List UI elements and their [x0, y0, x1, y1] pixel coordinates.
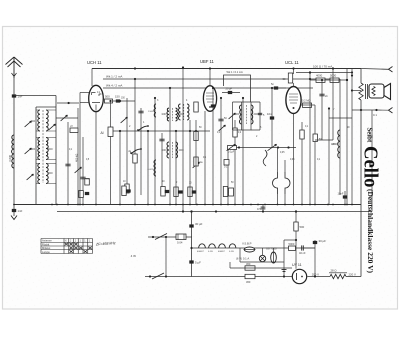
wire switch link	[165, 237, 167, 277]
svg-text:0.1µF: 0.1µF	[228, 151, 235, 154]
antenna	[6, 57, 23, 78]
trimmer left mid	[61, 115, 68, 121]
wire v310	[309, 73, 311, 205]
wire v232	[232, 102, 234, 130]
capacitor 20pF	[228, 91, 232, 94]
wire v352	[351, 69, 353, 205]
wire v78	[77, 108, 79, 205]
svg-text:10n: 10n	[267, 112, 272, 116]
svg-text:30 µF: 30 µF	[319, 239, 327, 243]
resistor 360 upper	[245, 266, 255, 270]
cap C-v68	[65, 163, 70, 165]
wire v110b	[110, 137, 112, 205]
svg-text:0.2 MΩ: 0.2 MΩ	[302, 99, 310, 103]
wire v183 long	[182, 68, 184, 212]
wire v302	[301, 122, 303, 205]
wire v235	[234, 120, 236, 205]
resistor 0.1 box	[224, 160, 229, 166]
resistor 500 psu	[294, 222, 298, 231]
tube UCH11	[89, 85, 104, 111]
wire v361 top	[360, 69, 362, 84]
junction dots bus2	[182, 210, 184, 212]
svg-text:100 Ω / 70 mA: 100 Ω / 70 mA	[313, 65, 332, 69]
cap v141	[138, 110, 143, 112]
svg-text:(6 V) 0.1 A: (6 V) 0.1 A	[236, 257, 249, 261]
trimmer IF2	[229, 113, 236, 119]
wire UCH top pin	[91, 69, 93, 87]
coil antenna	[12, 135, 14, 168]
junction dots top	[134, 67, 136, 69]
wire v340	[339, 79, 341, 195]
wire spk return	[329, 117, 352, 119]
trimmer C-v78	[75, 167, 82, 173]
padder cap	[80, 176, 85, 178]
wire UCH g2	[80, 102, 89, 104]
resistor box v302	[300, 130, 304, 139]
svg-text:220 V: 220 V	[349, 272, 356, 276]
transformer core bars	[365, 84, 367, 99]
svg-text:U8 7000: U8 7000	[266, 247, 277, 251]
wire secondary bus	[57, 211, 372, 213]
fuse VSBP	[244, 247, 254, 252]
svg-text:1nF: 1nF	[18, 209, 23, 213]
trimmer ubf	[219, 125, 226, 131]
switch hook 2	[131, 149, 141, 154]
svg-text:150: 150	[115, 95, 120, 99]
capacitor mains	[176, 234, 186, 240]
resistor 5000	[330, 78, 339, 82]
wire v322	[321, 80, 323, 140]
tube UY11	[292, 269, 306, 283]
wire ucl anode	[301, 104, 315, 106]
IF transformer 1 upper	[167, 108, 169, 121]
wire wk1 loop	[224, 75, 251, 102]
junction pot	[238, 146, 240, 148]
wire h140	[315, 139, 333, 141]
svg-text:4008 P: 4008 P	[197, 251, 204, 253]
wire right h72	[296, 72, 352, 74]
grid hook	[263, 150, 267, 166]
wire v328	[328, 109, 330, 205]
wire v190	[189, 120, 191, 205]
svg-text:500: 500	[300, 225, 305, 229]
svg-text:UBF 11: UBF 11	[200, 59, 215, 64]
resistor box v127	[125, 184, 129, 193]
svg-text:20 pF: 20 pF	[226, 87, 233, 91]
svg-text:400 kΩ: 400 kΩ	[75, 154, 79, 162]
wire left block top	[14, 95, 56, 97]
resistor 5000 psu	[289, 246, 296, 250]
field coil zigzag	[359, 83, 363, 100]
wire v241	[241, 102, 243, 130]
svg-text:Wk 4 / 2 mA: Wk 4 / 2 mA	[106, 84, 122, 88]
wire v333	[332, 69, 334, 141]
capacitor antenna series	[12, 94, 16, 97]
coil L1 secondary	[46, 110, 48, 131]
wire top rail	[92, 68, 361, 70]
wire v284 top link	[284, 239, 296, 241]
svg-text:0.5: 0.5	[257, 207, 261, 211]
wire v162	[161, 133, 163, 196]
svg-text:1000: 1000	[161, 114, 167, 116]
wire v127	[126, 98, 128, 193]
wire to right rail	[346, 276, 361, 278]
wire v135	[134, 79, 136, 205]
IF transformer 1 lower	[167, 142, 169, 158]
resistor 500 anode	[105, 99, 113, 103]
wire UBF bottom	[204, 111, 206, 205]
coil L2 secondary	[46, 138, 48, 160]
svg-text:1000: 1000	[179, 150, 185, 152]
cap 40nF	[301, 245, 303, 250]
svg-text:1000: 1000	[179, 114, 185, 116]
coil osc lower	[154, 160, 156, 176]
wire v315 psu	[314, 240, 316, 277]
resistor box 74	[70, 128, 78, 133]
wire UBF top pin	[209, 69, 211, 87]
capacitor 30uF-left	[189, 224, 193, 227]
wire lamp drop2	[273, 248, 275, 252]
switch upper	[155, 234, 167, 240]
svg-text:4 W: 4 W	[131, 254, 137, 258]
band table	[41, 238, 93, 240]
wire v155	[154, 98, 156, 205]
resistor box v196a	[194, 132, 198, 141]
svg-text:500: 500	[105, 95, 110, 99]
wire v176	[175, 131, 177, 205]
wire fuse down	[273, 262, 275, 263]
cap v221	[218, 118, 223, 120]
cap v322	[319, 93, 324, 95]
wire mains top	[148, 236, 192, 238]
svg-text:UCL 11: UCL 11	[285, 60, 299, 65]
wire if2 bot	[233, 129, 261, 131]
svg-text:Mittelw.: Mittelw.	[42, 246, 51, 250]
svg-text:Antenne: Antenne	[42, 239, 52, 243]
cap v315 box	[313, 134, 317, 142]
wire v230	[229, 262, 231, 268]
wire 360 row	[230, 267, 292, 269]
coil core dashes	[42, 110, 44, 183]
svg-text:0,05: 0,05	[290, 159, 295, 161]
wire h80	[310, 79, 347, 81]
coil L2 primary	[38, 138, 40, 160]
trimmer C-left4	[27, 174, 34, 180]
wire pot row	[228, 147, 296, 149]
cap v162	[159, 138, 164, 140]
wire left join	[56, 117, 78, 119]
heater cap bars	[282, 269, 287, 271]
tube UBF11	[203, 86, 216, 112]
wire heater tail	[304, 247, 315, 249]
electrolytic C2	[285, 172, 290, 194]
wire lamp bottom row	[240, 261, 284, 263]
wire v284	[283, 240, 285, 277]
cap v213	[211, 104, 215, 107]
cathode group 2	[161, 187, 165, 197]
svg-text:5000: 5000	[289, 242, 295, 246]
bus junction dots	[13, 204, 15, 206]
junction dots h131	[119, 130, 121, 132]
coil L3 primary	[38, 164, 40, 184]
wire mid h131	[113, 130, 210, 132]
svg-text:360: 360	[246, 280, 251, 284]
fuse U8	[271, 252, 277, 263]
svg-text:0.636: 0.636	[8, 154, 12, 161]
svg-text:0,05: 0,05	[280, 152, 285, 154]
svg-text:30 µF: 30 µF	[195, 222, 203, 226]
svg-text:40 nF: 40 nF	[299, 251, 306, 255]
wire v110	[110, 101, 112, 127]
wire v148	[147, 131, 149, 205]
wire UCH left drop	[79, 93, 81, 205]
cap 345	[343, 195, 347, 198]
wire v170	[169, 88, 171, 205]
dial lamp block	[108, 127, 113, 137]
cathode group 4	[188, 187, 192, 197]
cap 30uF psu	[313, 241, 317, 244]
wire anode link	[113, 100, 136, 102]
cathode group 1	[122, 186, 126, 196]
svg-text:UCH 11: UCH 11	[87, 60, 102, 65]
wire v240	[239, 248, 241, 262]
wire left h103	[57, 102, 79, 104]
wire speaker bottom	[352, 109, 377, 111]
wire v243	[242, 98, 244, 205]
wire lamp drop1	[262, 248, 264, 255]
svg-text:1000: 1000	[161, 150, 167, 152]
wire v191 power	[191, 212, 193, 277]
wire v285 low	[284, 194, 286, 205]
wire v277 top	[277, 148, 279, 173]
svg-text:(Deutschlandklasse 220 V): (Deutschlandklasse 220 V)	[366, 189, 374, 274]
trimmer C-left2	[49, 124, 56, 130]
junction 296-240	[295, 239, 297, 241]
switch lower	[152, 273, 164, 279]
junction h103	[68, 102, 70, 104]
wire left v56	[55, 96, 57, 205]
svg-text:1000: 1000	[48, 173, 54, 175]
wire Wk4 line	[103, 87, 313, 89]
trimmer mid2	[193, 162, 200, 168]
capacitor 150	[116, 99, 120, 102]
svg-text:4000: 4000	[316, 74, 323, 78]
wire v120	[119, 131, 121, 205]
wire v315	[314, 105, 316, 205]
wire v277 low	[277, 194, 279, 205]
wire v260	[259, 102, 261, 130]
wire UCL top pin	[293, 69, 295, 75]
cathode RC UCH	[79, 191, 84, 198]
coil L1 primary	[38, 110, 40, 131]
resistor box v196b	[194, 157, 198, 166]
junction dots toprow	[134, 78, 136, 80]
junction speaker	[351, 74, 353, 76]
wire v68	[67, 122, 69, 205]
wire v296 anode	[295, 212, 297, 269]
wire heater row	[238, 247, 315, 249]
wire UCL bottom	[293, 114, 295, 205]
wire h90 spk	[352, 90, 361, 92]
svg-text:Wk 1 / 0.1 mA: Wk 1 / 0.1 mA	[227, 70, 244, 74]
junction anode	[109, 100, 111, 102]
cap if2	[258, 112, 262, 114]
wire UCH grid	[80, 92, 89, 94]
svg-text:UY 11: UY 11	[292, 263, 302, 267]
svg-text:4008 P: 4008 P	[218, 251, 225, 253]
wire v141	[140, 108, 142, 195]
svg-text:Rückk.: Rückk.	[42, 242, 50, 246]
svg-text:3000: 3000	[48, 149, 54, 151]
wire v221	[220, 98, 222, 205]
wire main chassis bus	[14, 204, 361, 206]
wire ucl gridline	[272, 87, 286, 89]
wire v347	[346, 69, 348, 205]
svg-text:10nF: 10nF	[338, 192, 344, 196]
resistor 4000	[316, 78, 325, 82]
trimmer C-left1	[25, 121, 32, 127]
wire coil stubs	[36, 110, 56, 184]
svg-text:V.S.B.P: V.S.B.P	[242, 242, 252, 246]
svg-text:360: 360	[246, 262, 251, 266]
trimmer C-left3	[25, 148, 32, 154]
cathode group 5	[223, 187, 227, 197]
mains dropper	[330, 274, 346, 278]
wire v345	[344, 191, 346, 205]
wire v361 long	[360, 100, 362, 277]
dial lamps	[199, 244, 206, 248]
trimmer mid1	[121, 117, 128, 123]
wire if2 top	[233, 101, 261, 103]
resistor box v235	[233, 128, 237, 137]
wire Wk1 line	[103, 78, 340, 80]
electrolytic C1	[273, 172, 278, 194]
resistor box v135	[133, 154, 137, 163]
wire v196	[195, 120, 197, 205]
wire left v36	[35, 107, 37, 205]
wire antenna lead	[13, 75, 15, 205]
resistor 50 vert	[288, 73, 292, 83]
IF transformer 1b	[179, 104, 181, 120]
svg-text:Seibt: Seibt	[366, 128, 373, 143]
svg-text:ΔI: ΔI	[101, 131, 104, 135]
volume pot arrow	[268, 144, 277, 150]
cathode group 3	[174, 187, 178, 197]
svg-text:5 µF: 5 µF	[195, 261, 201, 265]
potentiometer	[228, 146, 237, 150]
cap 0.5 between buses	[261, 206, 266, 208]
svg-text:Cello: Cello	[360, 146, 382, 188]
terminal lower right	[389, 108, 393, 114]
wire v285 top	[284, 160, 286, 172]
wire v272	[271, 88, 273, 148]
svg-text:Langw.: Langw.	[42, 250, 50, 254]
svg-text:0.04: 0.04	[177, 241, 183, 245]
svg-text:Wk 1 / 2 mA: Wk 1 / 2 mA	[106, 75, 122, 79]
wire v228	[227, 146, 229, 205]
svg-text:28 Ω: 28 Ω	[331, 269, 337, 273]
terminal top right	[389, 67, 393, 73]
wire v213	[212, 88, 214, 205]
svg-text:0.022: 0.022	[148, 169, 154, 171]
capacitor 5uF	[189, 260, 193, 263]
svg-text:µΩ: µΩ	[70, 126, 73, 128]
wire ubf right	[222, 92, 240, 94]
pilot lamp	[259, 255, 265, 261]
wire v251	[250, 102, 252, 130]
IF transformer 2	[239, 105, 241, 124]
wire v83	[82, 137, 84, 205]
tube UCL11	[286, 87, 301, 114]
svg-text:0.1Ω: 0.1Ω	[229, 251, 234, 253]
ground below bus	[12, 209, 16, 212]
wire UCL top pin2	[293, 83, 295, 87]
junction psu	[190, 210, 192, 212]
speaker	[369, 84, 384, 98]
output choke coil	[338, 130, 340, 158]
resistor 360 lower	[245, 274, 255, 278]
cap 272	[270, 116, 274, 119]
svg-text:0.1: 0.1	[373, 113, 377, 117]
coil osc upper	[154, 104, 156, 117]
junction v329	[328, 107, 330, 109]
wire mains bottom	[145, 276, 292, 278]
svg-text:0.1Ω: 0.1Ω	[208, 251, 213, 253]
wire lamp up1	[262, 261, 264, 263]
wire psu out	[307, 276, 330, 278]
coil L3 secondary	[46, 164, 48, 184]
resistor 0.2M	[303, 103, 312, 107]
svg-text:1100: 1100	[148, 111, 153, 113]
wire v372	[371, 110, 373, 212]
switch hook 1	[138, 126, 148, 131]
wire UCH cathode	[95, 112, 97, 205]
cap ucl grid	[274, 86, 278, 89]
wire left block top2	[36, 106, 56, 108]
